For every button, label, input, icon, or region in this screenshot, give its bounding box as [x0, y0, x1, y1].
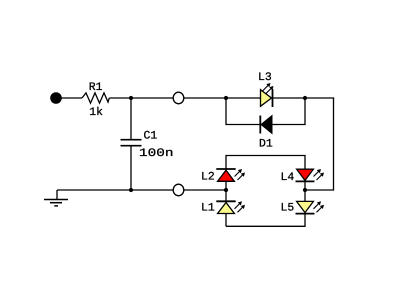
junction bridge left mid: [224, 188, 228, 192]
wire right vertical: [305, 98, 334, 190]
svg-text:L1: L1: [201, 202, 215, 214]
LED L2: [216, 169, 245, 181]
wire D1 right rise: [272, 98, 305, 125]
wire L2 to L1: [225, 181, 227, 201]
LED L3: [261, 83, 274, 107]
wire ground rail: [57, 189, 173, 191]
svg-text:1k: 1k: [89, 106, 103, 119]
wire C1 bottom: [130, 146, 132, 190]
capacitor C1: [121, 140, 142, 146]
svg-text:D1: D1: [259, 139, 273, 151]
LED L1: [216, 201, 245, 213]
wire R1 to connector: [109, 97, 173, 99]
wire bridge bottom rail: [226, 214, 305, 227]
wire bridge top rail: [226, 156, 305, 170]
wire L4 to L5: [304, 181, 306, 201]
ground: [44, 190, 68, 206]
junction top of C1: [129, 96, 133, 100]
wire L1 to bottom rail: [225, 214, 227, 227]
connector circle top: [173, 92, 184, 104]
LED L4: [296, 169, 325, 181]
resistor R1: [82, 93, 109, 103]
junction bridge right mid: [303, 188, 307, 192]
wire terminal to R1: [61, 97, 82, 99]
svg-text:100n: 100n: [139, 148, 174, 160]
diode D1: [260, 116, 272, 134]
LED L5: [296, 201, 325, 213]
connector circle bottom: [173, 184, 184, 196]
svg-text:L2: L2: [201, 172, 215, 184]
terminal (input pad): [50, 92, 62, 104]
svg-text:L4: L4: [281, 172, 295, 184]
wire L3 to right: [273, 97, 335, 99]
svg-text:L3: L3: [258, 72, 272, 84]
wire connector to L3: [184, 97, 261, 99]
svg-text:L5: L5: [281, 202, 295, 214]
junction bottom of C1: [129, 188, 133, 192]
wire connector to bridge: [184, 189, 226, 191]
junction node D1 right: [303, 96, 307, 100]
junction node D1 left: [224, 96, 228, 100]
svg-text:R1: R1: [89, 82, 103, 94]
svg-text:C1: C1: [144, 131, 158, 143]
wire C1 top: [130, 98, 132, 140]
wire D1 left drop: [226, 98, 260, 125]
